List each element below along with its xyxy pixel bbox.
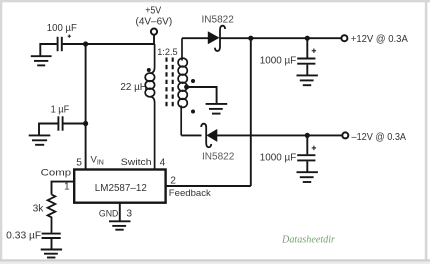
svg-text:Datasheetdir: Datasheetdir xyxy=(281,233,336,245)
svg-text:22 µH: 22 µH xyxy=(120,82,146,93)
ground for U1 xyxy=(109,221,131,229)
capacitor C5 0.33uF xyxy=(42,234,61,238)
wire D1 to +12V xyxy=(220,37,341,39)
node T1 secondary phase dot upper xyxy=(191,79,195,83)
ground for C3 xyxy=(297,75,318,85)
svg-text:Switch: Switch xyxy=(121,157,152,168)
svg-text:(4V–6V): (4V–6V) xyxy=(136,16,173,27)
ground for C2 xyxy=(29,135,51,144)
frame border left xyxy=(0,0,2,261)
svg-text:LM2587–12: LM2587–12 xyxy=(95,183,147,194)
ground center tap xyxy=(206,104,228,114)
wire pin3 gnd xyxy=(119,203,121,221)
ground for C1 xyxy=(31,56,52,65)
node T1 primary phase dot xyxy=(147,68,151,72)
svg-text:1000 µF: 1000 µF xyxy=(260,152,297,163)
label plus C4 xyxy=(312,146,316,150)
capacitor C4 1000uF xyxy=(297,155,315,160)
wire secondary top to diode xyxy=(182,37,208,39)
svg-text:1: 1 xyxy=(64,182,70,193)
svg-text:100 µF: 100 µF xyxy=(47,23,77,34)
capacitor C2 1uF xyxy=(58,116,62,130)
wire center tap to ground xyxy=(187,87,217,104)
wire C1 left xyxy=(40,44,57,56)
svg-text:2: 2 xyxy=(170,175,176,186)
ground for C5 xyxy=(41,250,62,258)
svg-text:+5V: +5V xyxy=(145,5,161,16)
diode D2 schottky bar xyxy=(201,124,211,147)
wire feedback horizontal xyxy=(166,185,251,187)
node C3 junction xyxy=(305,36,310,41)
wire C4 stem xyxy=(306,135,308,154)
frame outside bottom band xyxy=(0,262,430,264)
label plus C1 xyxy=(68,35,71,38)
wire pin1 comp xyxy=(52,182,75,195)
capacitor C3 1000uF xyxy=(297,59,315,64)
svg-text:1:2.5: 1:2.5 xyxy=(157,47,178,57)
node C4 junction xyxy=(305,133,310,138)
label plus C3 xyxy=(312,49,316,53)
svg-text:4: 4 xyxy=(160,157,166,168)
svg-text:–12V @ 0.3A: –12V @ 0.3A xyxy=(352,131,407,143)
node T1 center tap xyxy=(184,85,189,90)
svg-text:1000 µF: 1000 µF xyxy=(260,55,297,66)
frame border bottom xyxy=(0,259,430,261)
terminal -12V xyxy=(342,132,348,138)
IC U1 LM2587-12 xyxy=(74,170,165,203)
frame border top xyxy=(0,0,430,2)
svg-text:GND: GND xyxy=(99,208,119,219)
svg-text:1 µF: 1 µF xyxy=(51,104,70,115)
svg-text:Comp: Comp xyxy=(41,167,72,178)
svg-text:IN5822: IN5822 xyxy=(202,14,235,25)
svg-text:IN5822: IN5822 xyxy=(202,151,235,162)
svg-text:3k: 3k xyxy=(33,203,45,214)
wire C2 left xyxy=(39,124,58,135)
wire secondary bottom to diode xyxy=(181,134,201,136)
diode D1 schottky bar xyxy=(215,26,225,51)
wire D2 to -12V xyxy=(217,134,343,136)
diode D2 IN5822 xyxy=(207,130,216,141)
inductor T1 primary 22uH xyxy=(145,44,154,170)
wire C3 to ground xyxy=(306,65,308,75)
svg-text:Feedback: Feedback xyxy=(169,188,211,199)
capacitor C1 100uF xyxy=(58,37,62,51)
terminal +12V xyxy=(341,35,347,41)
ground for C4 xyxy=(297,172,318,182)
node Vin rail junction xyxy=(83,41,88,46)
wire +5V stem xyxy=(153,35,155,44)
node 1uF junction xyxy=(83,121,88,126)
node T1 secondary phase dot lower xyxy=(191,110,195,114)
wire C1 to Vin rail xyxy=(63,43,155,45)
diode D1 IN5822 xyxy=(208,32,218,43)
svg-text:5: 5 xyxy=(76,157,82,168)
svg-text:0.33 µF: 0.33 µF xyxy=(6,231,41,242)
frame border right xyxy=(425,0,428,261)
resistor R1 3k xyxy=(48,195,56,233)
wire C5 to ground xyxy=(51,239,53,249)
transformer core xyxy=(167,58,173,109)
wire C2 right xyxy=(63,123,85,125)
wire Vin vertical xyxy=(85,44,87,170)
svg-text:3: 3 xyxy=(126,208,132,219)
terminal +5V input xyxy=(151,29,157,35)
wire C4 to ground xyxy=(306,161,308,172)
node feedback tap xyxy=(248,36,253,41)
wire feedback vertical xyxy=(250,38,252,186)
svg-text:+12V @ 0.3A: +12V @ 0.3A xyxy=(351,33,408,45)
wire C3 stem xyxy=(306,38,308,57)
transformer T1 secondary xyxy=(178,38,187,135)
